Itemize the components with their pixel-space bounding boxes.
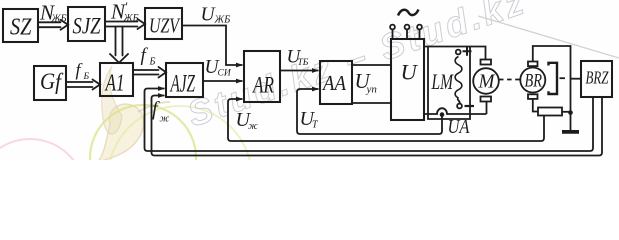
svg-text:ж: ж xyxy=(160,114,170,125)
svg-text:AJZ: AJZ xyxy=(169,71,195,98)
tacho BR bottom brush xyxy=(528,94,538,99)
wire U_ZhB from UZV to AR xyxy=(182,26,243,66)
AC tilde symbol xyxy=(398,10,419,16)
terminal circle 1 xyxy=(390,25,395,30)
block AJZ xyxy=(166,63,203,97)
tacho BR circle xyxy=(520,68,545,93)
wire U_TB from AR to AA xyxy=(280,70,319,72)
minus terminal circle xyxy=(457,104,462,109)
hollow arrow A1 to AJZ shaft xyxy=(133,70,159,75)
block A1 xyxy=(100,63,133,96)
ground bar xyxy=(562,130,579,134)
block BRZ xyxy=(581,61,612,97)
watermark diagonal line xyxy=(478,16,619,58)
svg-text:BRZ: BRZ xyxy=(586,68,610,88)
svg-text:ЖБ: ЖБ xyxy=(123,13,139,24)
svg-text:A1: A1 xyxy=(104,71,124,97)
watermark bird beak xyxy=(138,102,170,112)
svg-text:U: U xyxy=(401,60,419,85)
block Gf xyxy=(34,66,66,100)
block U xyxy=(391,39,424,120)
wire speed feedback BRZ to AJZ outer xyxy=(145,89,594,152)
wire speed feedback BRZ to AJZ inner xyxy=(152,96,603,156)
wire U_SI from AJZ to AR xyxy=(203,80,243,82)
svg-text:′: ′ xyxy=(125,0,128,14)
svg-text:уп: уп xyxy=(366,84,378,96)
svg-text:BR: BR xyxy=(525,71,543,92)
block UZV xyxy=(145,8,182,39)
svg-text:ЖБ: ЖБ xyxy=(51,14,67,25)
terminal circle 3 xyxy=(417,25,422,30)
svg-text:SJZ: SJZ xyxy=(73,14,101,39)
hollow arrow Gf to A1 shaft xyxy=(66,82,93,87)
tacho BR top brush xyxy=(528,62,538,67)
svg-text:UZV: UZV xyxy=(149,14,181,38)
ground stem xyxy=(570,113,572,131)
wire bus AA to U upper xyxy=(352,64,391,66)
watermark bird body xyxy=(98,104,144,162)
hollow arrow Gf to A1 head xyxy=(93,80,101,90)
armature bottom wire with hop xyxy=(424,108,487,114)
inductor coil in LM xyxy=(455,57,462,99)
wire U_Zh feedback from resistor to AR xyxy=(228,99,544,141)
wire M bottom to armature rail xyxy=(486,102,488,115)
terminal stubs on U top xyxy=(393,30,420,40)
svg-text:ж: ж xyxy=(248,121,258,132)
hollow arrow A1 to AJZ head xyxy=(159,67,167,78)
squiggle coil to minus terminal xyxy=(458,98,460,104)
svg-text:СИ: СИ xyxy=(218,69,232,79)
svg-text:ТБ: ТБ xyxy=(298,58,309,68)
watermark bird wing xyxy=(102,66,122,134)
resistor R xyxy=(538,108,562,116)
hollow arrow branch down to A1 shaft xyxy=(116,27,123,56)
hollow arrow SZ to SJZ shaft xyxy=(38,22,61,27)
block SJZ xyxy=(68,7,105,41)
hollow arrow SZ to SJZ head xyxy=(61,20,69,30)
svg-text:M: M xyxy=(478,71,496,93)
hollow arrow SJZ to UZV shaft xyxy=(105,22,138,27)
svg-text:LM: LM xyxy=(431,69,454,94)
motor M top brush xyxy=(481,60,492,65)
hollow arrow branch down to A1 head xyxy=(110,54,128,63)
bracket element right of BR xyxy=(549,63,558,94)
wire bus AA to U lower xyxy=(352,102,391,104)
label minus xyxy=(465,105,475,107)
shaft dash right of bracket xyxy=(560,77,568,79)
svg-text:ЖБ: ЖБ xyxy=(214,15,231,26)
junction dot ground node xyxy=(568,110,573,115)
svg-text:AR: AR xyxy=(252,73,274,98)
shaft dashed line M to BR xyxy=(499,79,520,81)
wire top rail U to M xyxy=(424,47,486,60)
svg-text:Gf: Gf xyxy=(40,69,64,94)
svg-text:Б: Б xyxy=(149,57,156,68)
block AR xyxy=(244,51,280,102)
stub to BRZ left xyxy=(571,78,582,80)
plus terminal circle xyxy=(456,50,461,55)
terminal circle 2 xyxy=(405,25,410,30)
block SZ xyxy=(3,9,38,42)
wire BR top loop to BRZ and ground riser xyxy=(533,46,571,113)
svg-text:SZ: SZ xyxy=(10,15,32,41)
watermark circle pink xyxy=(0,139,85,240)
watermark circle yellow xyxy=(108,106,252,240)
motor M circle xyxy=(473,68,499,94)
wire BR bottom to resistor xyxy=(533,99,538,112)
wire U_T feedback from UA node to AA xyxy=(297,89,442,134)
junction dot UA xyxy=(440,112,445,117)
block AA xyxy=(320,61,352,104)
svg-text:Б: Б xyxy=(83,72,90,82)
wire resistor to ground node xyxy=(562,111,571,113)
svg-text:UA: UA xyxy=(448,116,471,138)
watermark circle green xyxy=(90,105,196,211)
svg-text:AA: AA xyxy=(321,71,346,95)
hollow arrow SJZ to UZV head xyxy=(138,19,146,29)
label plus xyxy=(463,47,472,56)
motor M bottom brush xyxy=(481,97,492,102)
block LM outline xyxy=(428,47,470,120)
